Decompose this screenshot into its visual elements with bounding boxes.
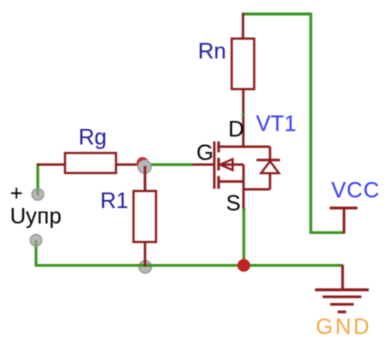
transistor VT1 body stub with arrow (220, 163, 244, 165)
resistor Rg body (65, 153, 116, 173)
wire bottom ground net horizontal (35, 264, 343, 267)
transistor VT1 channel segment bottom (217, 176, 220, 189)
wire gate net from R1 junction to gate lead (145, 163, 193, 166)
wire R1 top lead visible over pin dot (144, 166, 146, 191)
node junction dot red at Rg R1 gate (137, 157, 149, 169)
transistor VT1 channel segment middle (217, 158, 220, 171)
wire right vertical rail VCC net (309, 13, 312, 235)
resistor Rn body (232, 39, 255, 90)
ground stem (341, 265, 344, 290)
svg-text:VT1: VT1 (256, 111, 296, 136)
transistor VT1 channel segment top (217, 141, 220, 152)
transistor VT1 gate lead (193, 163, 214, 165)
transistor VT1 drain stub (219, 145, 244, 147)
svg-text:Rn: Rn (198, 38, 226, 63)
ground bar 4 (338, 311, 346, 314)
terminal plus of Uupr (32, 189, 44, 201)
wire top horizontal from Rn top to right rail (242, 13, 312, 16)
wire bottom of right rail to VCC symbol (310, 231, 345, 234)
node junction dot red at source bottom net (237, 259, 250, 272)
transistor VT1 source lead down (242, 182, 244, 209)
resistor Rn bottom lead to drain node (242, 89, 244, 148)
terminal minus of Uupr (30, 235, 42, 247)
transistor VT1 MOSFET gate bar (213, 141, 215, 188)
power VCC symbol stem (343, 208, 346, 234)
wire from Uupr plus terminal up to Rg (36, 163, 39, 194)
transistor VT1 body to source vertical (242, 165, 244, 182)
resistor R1 body (134, 191, 157, 242)
diode body diode top branch (243, 145, 270, 147)
svg-text:U: U (10, 203, 26, 228)
svg-text:R1: R1 (100, 188, 128, 213)
diode cathode bar (257, 159, 281, 161)
ground bar 3 (330, 303, 354, 306)
transistor VT1 source stub (219, 180, 244, 182)
svg-text:упр: упр (26, 203, 62, 228)
svg-text:S: S (226, 191, 241, 216)
power VCC symbol bar (330, 207, 358, 210)
wire source S down to bottom net junction (242, 208, 245, 266)
diode triangle (261, 161, 279, 173)
svg-text:Rg: Rg (79, 125, 107, 150)
svg-text:VCC: VCC (331, 178, 380, 203)
svg-text:D: D (228, 117, 244, 142)
resistor Rg horizontal leads (37, 163, 65, 165)
svg-text:G: G (196, 140, 213, 165)
diode top vertical (269, 147, 271, 160)
diode bottom branch to source (244, 188, 271, 190)
wire R1 bottom lead over junction (144, 242, 146, 267)
node gray pin dot at R1 bottom (139, 261, 151, 273)
svg-text:GND: GND (316, 314, 372, 337)
ground bar 2 (323, 295, 362, 298)
transistor VT1 arrow head (220, 159, 232, 170)
resistor R1 top lead (144, 165, 146, 191)
wire from Uupr minus terminal down to bottom net (35, 240, 38, 265)
node gray pin dot at Rg R1 gate junction (138, 160, 151, 173)
ground bar 1 (315, 288, 369, 291)
pin connection green dot on drain lead (242, 113, 245, 116)
diode bottom vertical (269, 173, 271, 189)
svg-text:+: + (10, 181, 23, 206)
resistor Rn top lead (242, 13, 244, 39)
